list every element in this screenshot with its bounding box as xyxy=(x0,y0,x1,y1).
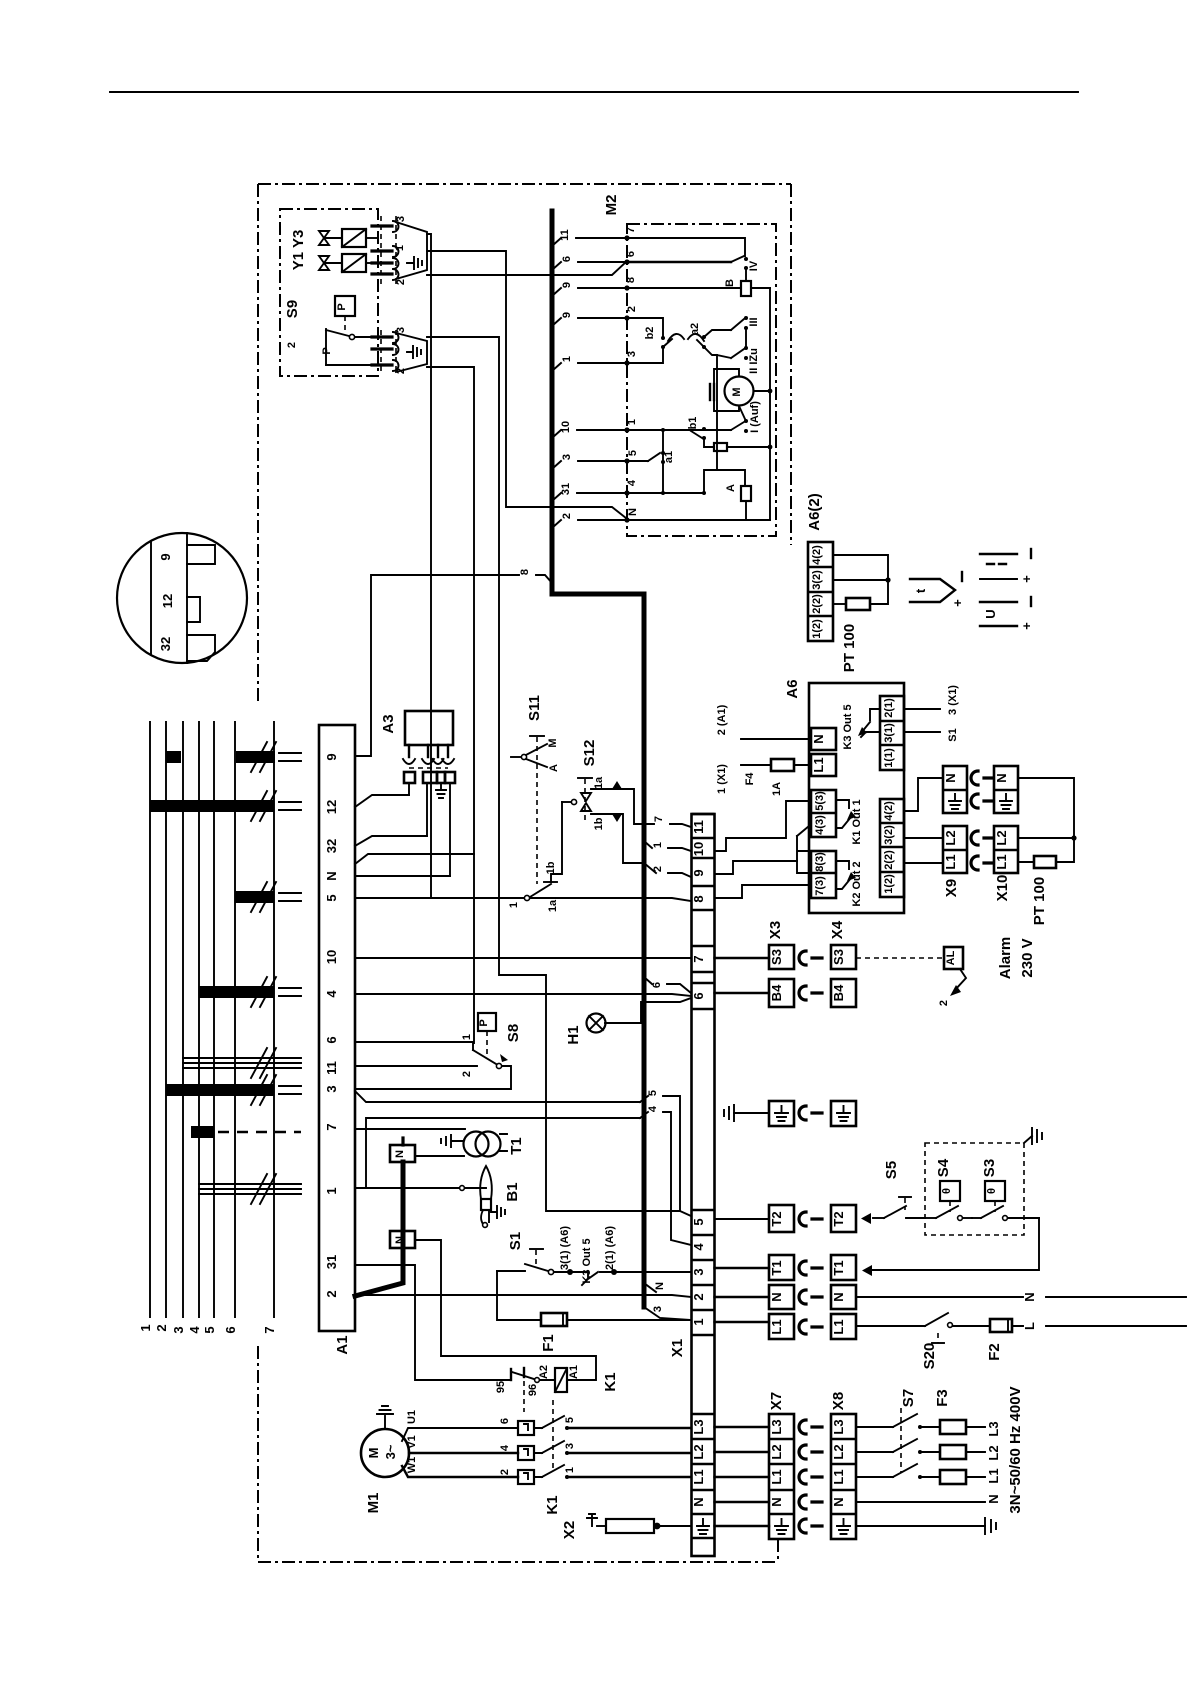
svg-text:L2: L2 xyxy=(769,1444,784,1459)
wire 8 from A1 pin 9 to bus xyxy=(355,569,552,756)
svg-text:L1: L1 xyxy=(691,1469,706,1484)
svg-text:1: 1 xyxy=(508,902,520,908)
ignition electrode X2 xyxy=(561,1514,691,1539)
wires A6 to X9 xyxy=(904,778,943,863)
legend: thermocouple polarity xyxy=(980,549,1034,583)
svg-text:31: 31 xyxy=(560,483,572,495)
M2 internal: contact III xyxy=(704,316,760,347)
svg-text:T1: T1 xyxy=(831,1260,846,1275)
svg-text:X4: X4 xyxy=(829,920,846,939)
svg-text:Alarm: Alarm xyxy=(997,937,1014,980)
wire 6 xyxy=(552,262,627,270)
svg-text:X7: X7 xyxy=(768,1392,785,1410)
svg-text:3: 3 xyxy=(324,1085,339,1092)
wire N-box to K1 coil A1 side xyxy=(415,1240,596,1380)
svg-text:L3: L3 xyxy=(831,1419,846,1434)
wire 5: A1 pin 3 branch to X1-5 xyxy=(355,1090,691,1216)
svg-text:7: 7 xyxy=(324,1123,339,1130)
svg-text:1(2): 1(2) xyxy=(883,874,895,894)
svg-text:b2: b2 xyxy=(644,327,656,340)
svg-text:1A: 1A xyxy=(771,782,783,796)
svg-text:6: 6 xyxy=(691,992,706,999)
svg-text:3(2): 3(2) xyxy=(883,825,895,845)
neutral tap box N (upper) xyxy=(390,1138,415,1162)
svg-text:7: 7 xyxy=(653,816,665,822)
svg-text:θ: θ xyxy=(941,1188,953,1194)
wire 1 xyxy=(552,363,627,371)
wire A1-31 down to overload contact 95 xyxy=(355,1265,510,1380)
svg-text:10: 10 xyxy=(560,421,572,433)
svg-text:B: B xyxy=(724,279,736,287)
svg-text:6: 6 xyxy=(223,1326,238,1333)
svg-text:1: 1 xyxy=(138,1324,153,1331)
svg-text:3: 3 xyxy=(564,1443,576,1449)
svg-text:A6(2): A6(2) xyxy=(806,493,823,531)
svg-text:M1: M1 xyxy=(365,1493,382,1514)
wire: S9 pin3 down to X1-5 (via x=499, x=546) xyxy=(427,337,680,1211)
svg-text:L1: L1 xyxy=(943,854,958,869)
svg-text:L2: L2 xyxy=(994,830,1009,845)
svg-text:3: 3 xyxy=(691,1268,706,1275)
svg-text:S1: S1 xyxy=(507,1232,524,1250)
valve cable screen funnel with earth xyxy=(396,222,427,279)
svg-text:T1: T1 xyxy=(508,1137,525,1155)
svg-text:L3: L3 xyxy=(691,1419,706,1434)
terminal strip X8 xyxy=(830,1392,856,1539)
wire N from A1-2 to X1-2 xyxy=(355,1282,691,1297)
svg-text:A1: A1 xyxy=(568,1365,580,1379)
svg-text:I (Auf): I (Auf) xyxy=(749,401,761,433)
svg-text:6: 6 xyxy=(561,256,573,262)
wire 11 xyxy=(552,238,627,246)
svg-text:II IZu: II IZu xyxy=(748,348,760,374)
operating switch S1 with K3 Out 5 contact xyxy=(497,1226,691,1285)
svg-text:S1: S1 xyxy=(947,728,959,741)
svg-text:12: 12 xyxy=(160,594,175,608)
svg-text:B4: B4 xyxy=(831,984,846,1001)
svg-text:1: 1 xyxy=(324,1187,339,1194)
wire 3 from bus to X1-1 xyxy=(644,1306,691,1320)
svg-text:32: 32 xyxy=(158,637,173,651)
wire X1-3 to X3-T1 xyxy=(715,1267,770,1269)
svg-text:X8: X8 xyxy=(830,1392,847,1410)
svg-text:2: 2 xyxy=(286,342,298,348)
svg-text:IV: IV xyxy=(748,260,760,271)
svg-text:S4: S4 xyxy=(935,1158,952,1177)
svg-text:S8: S8 xyxy=(505,1024,522,1042)
svg-text:3: 3 xyxy=(561,454,573,460)
fuse F2 xyxy=(986,1319,1186,1361)
svg-text:1: 1 xyxy=(691,1318,706,1325)
svg-text:6: 6 xyxy=(324,1036,339,1043)
svg-text:3(1): 3(1) xyxy=(883,723,895,743)
svg-text:9: 9 xyxy=(561,282,573,288)
svg-text:4(3): 4(3) xyxy=(814,815,826,835)
svg-text:9: 9 xyxy=(561,312,573,318)
valve connector pins with labels 3,1,2 xyxy=(372,216,407,285)
svg-text:11: 11 xyxy=(691,820,706,834)
M2 internal: pin7 riser to contact IV xyxy=(627,238,745,256)
S9 cable screen funnel with earth xyxy=(396,333,427,372)
svg-text:31: 31 xyxy=(324,1255,339,1269)
svg-text:L1: L1 xyxy=(994,854,1009,869)
svg-text:1(2): 1(2) xyxy=(811,619,823,639)
svg-text:S3: S3 xyxy=(831,949,846,965)
svg-text:5: 5 xyxy=(202,1326,217,1333)
M2 internal: contacts b2/a2 xyxy=(627,318,706,363)
svg-text:W1: W1 xyxy=(406,1457,418,1474)
svg-text:5: 5 xyxy=(564,1417,576,1423)
cable designation marks xyxy=(150,742,301,1204)
switch S5 xyxy=(861,1161,925,1224)
M2 internal: N row xyxy=(627,519,770,521)
legend: voltage input xyxy=(980,597,1034,630)
wire 2 xyxy=(552,520,627,528)
alarm device AL xyxy=(856,937,1036,1006)
svg-text:A: A xyxy=(548,764,560,772)
svg-text:+: + xyxy=(1019,622,1034,630)
A6 terminal L1 with fuse F4 xyxy=(716,754,836,796)
svg-text:+: + xyxy=(950,599,965,607)
svg-text:4: 4 xyxy=(187,1326,202,1334)
svg-text:S12: S12 xyxy=(581,740,598,767)
svg-text:11: 11 xyxy=(324,1061,339,1075)
svg-text:PT 100: PT 100 xyxy=(841,624,858,672)
M2 internal: device B xyxy=(627,279,770,296)
svg-text:1: 1 xyxy=(461,1034,473,1040)
valve/pressure-switch box S9/Y1/Y3 (dash-dot) xyxy=(280,209,378,376)
svg-text:M: M xyxy=(547,738,559,747)
svg-text:5: 5 xyxy=(691,1218,706,1225)
svg-text:4: 4 xyxy=(691,1243,706,1251)
svg-text:6: 6 xyxy=(651,982,663,988)
M2 internal: resistor in b1 branch xyxy=(704,438,772,451)
svg-text:1: 1 xyxy=(652,842,664,848)
sensor PT 100 (boiler) xyxy=(1018,778,1077,925)
lamp H1 xyxy=(565,998,691,1045)
wire: valve pin1 to M2 N (down x=506) xyxy=(427,251,626,518)
svg-text:4(2): 4(2) xyxy=(883,801,895,821)
supply N line and earth xyxy=(856,1502,996,1534)
wire A1-32 to A3 xyxy=(355,836,427,846)
svg-text:3: 3 xyxy=(395,216,407,222)
svg-text:N: N xyxy=(831,1497,846,1506)
svg-text:95: 95 xyxy=(495,1381,507,1393)
svg-text:S3: S3 xyxy=(769,949,784,965)
burner motor M1 xyxy=(361,1406,518,1513)
svg-text:6: 6 xyxy=(499,1418,511,1424)
svg-text:3: 3 xyxy=(395,327,407,333)
neutral tap box N (lower) xyxy=(390,1231,415,1248)
svg-text:t: t xyxy=(913,588,928,593)
A6 terminal N xyxy=(716,704,836,750)
svg-text:5: 5 xyxy=(627,450,639,456)
svg-text:2(2): 2(2) xyxy=(811,594,823,614)
S9 connector pins with labels 3,2 xyxy=(372,327,407,374)
X1 pin boxes L3,L2,L1,N,earth xyxy=(691,1414,715,1538)
plug-in connector arcs X7/X8 xyxy=(799,1420,822,1533)
svg-text:2: 2 xyxy=(395,279,407,285)
A6 terminals 5(3),4(3) with K1 Out 1 xyxy=(811,790,863,845)
motor plug M2 box (dash-dot) xyxy=(627,224,776,536)
svg-text:1: 1 xyxy=(394,245,406,251)
svg-text:2: 2 xyxy=(626,306,638,312)
svg-text:1a: 1a xyxy=(593,776,605,789)
svg-text:A3: A3 xyxy=(380,714,397,733)
fuse F1 xyxy=(497,1271,691,1352)
wire A1-12 to A3 xyxy=(355,795,409,807)
svg-text:F3: F3 xyxy=(934,1389,951,1407)
svg-text:H1: H1 xyxy=(565,1025,582,1044)
svg-text:Y1 Y3: Y1 Y3 xyxy=(290,230,307,271)
svg-text:4: 4 xyxy=(324,990,339,998)
svg-text:K1: K1 xyxy=(602,1372,619,1391)
svg-text:2: 2 xyxy=(691,1293,706,1300)
svg-text:T2: T2 xyxy=(831,1211,846,1226)
contactor K1 main contacts xyxy=(534,1400,691,1515)
M2 internal: contact a1 xyxy=(627,430,675,493)
plug-in connector arcs X3/X4 xyxy=(799,951,822,1334)
svg-text:N: N xyxy=(394,1150,406,1158)
svg-text:M: M xyxy=(731,387,743,396)
svg-text:5(3): 5(3) xyxy=(814,791,826,811)
svg-text:L1: L1 xyxy=(986,1468,1001,1483)
M2 internal: pin4 row and device A xyxy=(627,470,751,520)
svg-text:S9: S9 xyxy=(284,300,301,318)
svg-text:9: 9 xyxy=(691,869,706,876)
wire 4: B1 branch to X1-4 xyxy=(366,1105,691,1245)
terminal strip X4 xyxy=(829,920,856,1339)
switch S20 xyxy=(856,1313,990,1369)
svg-text:2: 2 xyxy=(561,513,573,519)
svg-text:3(2): 3(2) xyxy=(811,570,823,590)
svg-text:1a: 1a xyxy=(547,899,559,912)
X1 pin boxes 11,10,9,8 xyxy=(691,814,715,910)
svg-text:2: 2 xyxy=(499,1469,511,1475)
A6 terminals 2(1),3(1),1(1) xyxy=(880,685,959,770)
svg-text:A: A xyxy=(725,484,737,492)
selector switch S11 xyxy=(511,695,560,884)
M2 internal: contact b1 xyxy=(627,417,731,440)
wire 1 jog from bus to X1-10 xyxy=(644,841,691,851)
wire X1-2 to X3-N xyxy=(715,1296,770,1298)
supply labels xyxy=(986,1386,1024,1513)
thermocouple symbol xyxy=(910,572,965,607)
top rule xyxy=(110,91,1078,93)
return wire to X4-T1 xyxy=(862,1218,1039,1276)
svg-text:N: N xyxy=(994,773,1009,782)
svg-text:2: 2 xyxy=(461,1071,473,1077)
svg-text:a2: a2 xyxy=(689,323,701,335)
wire A1-N to A3 xyxy=(355,875,450,877)
wire X1-1 to X3-L1 xyxy=(715,1321,770,1323)
M2 pin junction dots xyxy=(624,235,629,522)
svg-text:T2: T2 xyxy=(769,1211,784,1226)
svg-text:K1 Out 1: K1 Out 1 xyxy=(851,799,863,844)
svg-text:N: N xyxy=(1022,1292,1037,1301)
svg-text:2: 2 xyxy=(938,1000,950,1006)
bus branch wires to M2 with wire numbers xyxy=(552,229,627,528)
svg-text:9: 9 xyxy=(158,553,173,560)
svg-text:L2: L2 xyxy=(691,1444,706,1459)
svg-text:2(2): 2(2) xyxy=(883,850,895,870)
svg-text:S3: S3 xyxy=(981,1159,998,1177)
thermostat S4 xyxy=(925,1158,972,1220)
svg-text:8: 8 xyxy=(625,277,637,283)
svg-text:F2: F2 xyxy=(986,1343,1003,1361)
svg-text:N: N xyxy=(986,1494,1001,1503)
svg-text:N: N xyxy=(627,508,639,516)
svg-text:L2: L2 xyxy=(986,1445,1001,1460)
svg-text:3: 3 xyxy=(171,1326,186,1333)
flame sensor B1 xyxy=(355,1166,521,1227)
svg-text:8: 8 xyxy=(691,895,706,902)
svg-text:1: 1 xyxy=(564,1467,576,1473)
svg-text:N: N xyxy=(943,773,958,782)
svg-text:96: 96 xyxy=(527,1384,539,1396)
svg-text:1: 1 xyxy=(561,356,573,362)
A6 contact K3 Out 5 xyxy=(842,704,880,749)
svg-text:L3: L3 xyxy=(986,1421,1001,1436)
neutral rail (thick) xyxy=(355,1162,403,1296)
detail circle (connector coding view) xyxy=(117,533,247,663)
wire: funnel screen down to S11 line xyxy=(427,234,431,898)
wire 3 xyxy=(552,461,627,469)
svg-text:M2: M2 xyxy=(603,195,620,216)
svg-text:S5: S5 xyxy=(883,1161,900,1179)
wire 9 (second) xyxy=(552,318,627,326)
svg-text:L1: L1 xyxy=(769,1469,784,1484)
X1 pin boxes 5,4,3,2,1 xyxy=(691,1210,715,1335)
thermostat S3 xyxy=(972,1159,1039,1221)
earth stub at X3 xyxy=(724,1105,769,1121)
svg-text:N: N xyxy=(654,1282,666,1290)
terminal strip X7 xyxy=(768,1392,794,1539)
contactor coil K1 xyxy=(538,1365,619,1392)
svg-text:N: N xyxy=(324,871,339,880)
svg-text:M: M xyxy=(366,1448,381,1459)
wire 31 xyxy=(552,493,627,501)
main switch S7 xyxy=(856,1389,940,1479)
svg-text:L1: L1 xyxy=(769,1319,784,1334)
pressure switch S9 with P box xyxy=(286,296,378,365)
wire: S9 pin2 down x=474 to S8 xyxy=(427,367,474,1043)
svg-text:P: P xyxy=(321,347,333,354)
wire X1-7 to X3-S3 xyxy=(715,957,770,959)
svg-text:X1: X1 xyxy=(669,1339,686,1357)
svg-text:K1: K1 xyxy=(544,1495,561,1514)
cable bundle (thick bus) xyxy=(552,211,644,1307)
display module strip A6(2) xyxy=(806,493,833,641)
svg-text:PT 100: PT 100 xyxy=(1031,877,1048,925)
svg-text:2(1): 2(1) xyxy=(883,698,895,718)
svg-text:2(1) (A6): 2(1) (A6) xyxy=(604,1226,616,1270)
svg-text:A6: A6 xyxy=(784,679,801,698)
svg-text:X2: X2 xyxy=(561,1521,578,1539)
terminal strip X1 xyxy=(669,814,715,1556)
svg-text:5: 5 xyxy=(647,1090,659,1096)
svg-text:4(2): 4(2) xyxy=(811,545,823,565)
svg-text:7: 7 xyxy=(262,1326,277,1333)
svg-text:S11: S11 xyxy=(526,695,543,721)
wires X1 to X7 rows xyxy=(715,1427,770,1526)
svg-text:3(1) (A6): 3(1) (A6) xyxy=(559,1226,571,1270)
S12 output 1b (down arrow) to X1-9 xyxy=(591,814,691,877)
A6 terminals 4(2),3(2),2(2),1(2) xyxy=(880,799,904,897)
neutral wire N to supply xyxy=(856,1292,1186,1301)
overload contact 95/96 xyxy=(495,1368,555,1412)
svg-text:T1: T1 xyxy=(769,1260,784,1275)
svg-text:7: 7 xyxy=(691,955,706,962)
svg-text:θ: θ xyxy=(986,1188,998,1194)
svg-text:1: 1 xyxy=(626,419,638,425)
svg-text:N: N xyxy=(831,1292,846,1301)
svg-text:3: 3 xyxy=(652,1306,664,1312)
S11 contact 1/1a/1b xyxy=(508,802,562,912)
controller A6 box xyxy=(784,679,904,913)
svg-text:L2: L2 xyxy=(831,1444,846,1459)
svg-text:b1: b1 xyxy=(687,417,699,430)
M2 internal right rail xyxy=(769,288,771,520)
terminal strip X9 xyxy=(943,766,967,897)
wire A1-5 to S11 contact and X1-8 xyxy=(355,898,691,901)
push switch S12 xyxy=(562,740,598,820)
fuse block F3 xyxy=(934,1389,985,1484)
svg-text:N: N xyxy=(769,1497,784,1506)
terminal strip X10 xyxy=(994,766,1018,901)
ignition unit A3 xyxy=(380,711,455,876)
svg-text:P: P xyxy=(336,303,348,310)
svg-text:N: N xyxy=(769,1292,784,1301)
svg-text:K2 Out 2: K2 Out 2 xyxy=(851,861,863,906)
X1 pin boxes 7,6 xyxy=(691,946,715,1009)
svg-text:U: U xyxy=(983,609,998,618)
svg-text:AL: AL xyxy=(945,950,957,965)
svg-text:3: 3 xyxy=(626,351,638,357)
svg-text:32: 32 xyxy=(324,839,339,853)
svg-text:7: 7 xyxy=(625,227,637,233)
svg-text:6: 6 xyxy=(625,251,637,257)
svg-text:9: 9 xyxy=(324,753,339,760)
svg-text:5: 5 xyxy=(324,894,339,901)
M2 internal: contact II (Zu) xyxy=(704,346,760,469)
svg-text:S20: S20 xyxy=(921,1343,938,1370)
ignition transformer T1 xyxy=(355,1129,525,1157)
svg-text:P: P xyxy=(478,1019,490,1026)
external cable lines 1..7 xyxy=(138,722,277,1334)
A1 pin labels xyxy=(324,753,339,1297)
wires X1-10/9/8 to controller A6 xyxy=(715,801,812,898)
terminal strip X3 xyxy=(767,921,794,1339)
control box terminal strip A1 xyxy=(319,725,355,1355)
svg-text:U1: U1 xyxy=(406,1410,418,1424)
svg-text:III: III xyxy=(748,317,760,326)
wire from A1 pin 4 to X1-6 xyxy=(355,994,691,996)
svg-text:V1: V1 xyxy=(406,1435,418,1448)
svg-text:F4: F4 xyxy=(744,772,756,786)
svg-text:B4: B4 xyxy=(769,984,784,1001)
svg-text:10: 10 xyxy=(324,950,339,964)
overload heaters xyxy=(499,1418,534,1484)
svg-text:L1: L1 xyxy=(831,1469,846,1484)
svg-text:4: 4 xyxy=(647,1105,659,1112)
svg-text:12: 12 xyxy=(324,800,339,814)
wire A1-10 to X1-7 xyxy=(355,957,691,959)
svg-text:K3 Out 5: K3 Out 5 xyxy=(842,704,854,749)
svg-text:X3: X3 xyxy=(767,921,784,939)
valve Y3 xyxy=(319,229,378,247)
svg-text:L3: L3 xyxy=(769,1419,784,1434)
